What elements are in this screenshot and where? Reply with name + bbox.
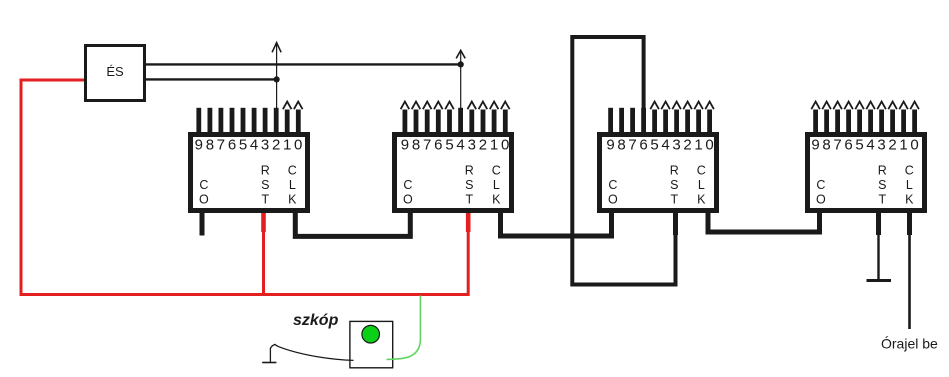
label U1.CO — [199, 178, 209, 207]
svg-text:K: K — [905, 193, 914, 207]
svg-text:2: 2 — [888, 137, 896, 154]
wire: vertical from U1 pin 2 up to node — [272, 43, 281, 109]
pin U1.1 — [283, 102, 292, 154]
svg-text:C: C — [403, 178, 412, 192]
label U3.CLK — [697, 164, 706, 207]
svg-text:4: 4 — [866, 137, 874, 154]
pin U2.8 — [412, 102, 421, 154]
svg-text:8: 8 — [822, 137, 830, 154]
svg-text:C: C — [288, 164, 297, 178]
svg-text:7: 7 — [833, 137, 841, 154]
pin U4.0 — [910, 102, 919, 154]
counter U3 box — [600, 135, 717, 211]
oscilloscope (szkóp) box — [350, 321, 393, 367]
scope indicator (green lamp) — [362, 325, 380, 343]
pin U4.1 — [899, 102, 908, 154]
svg-text:R: R — [670, 164, 679, 178]
wire: U1.CO stub — [200, 213, 205, 236]
svg-text:C: C — [697, 164, 706, 178]
AND gate U5 (ÉS) — [86, 46, 145, 101]
label U4.RST — [878, 164, 887, 207]
counter U4 box — [808, 135, 925, 211]
pin U3.5 — [650, 102, 659, 154]
svg-text:8: 8 — [412, 137, 420, 154]
wire: ÉS input B from U1 output 2 (lower horizontal) — [146, 78, 278, 80]
svg-text:O: O — [816, 193, 826, 207]
pin U1.4 — [250, 108, 258, 154]
label U3.CO — [608, 178, 618, 207]
svg-text:S: S — [878, 178, 886, 192]
pin U1.5 — [239, 108, 247, 154]
wire: U2.CO to U1.CLK cascade — [295, 210, 410, 236]
pin U3.3 — [672, 102, 681, 154]
pin U1.0 — [294, 102, 303, 154]
node B (junction dot U2.4 to ÉS) — [458, 61, 464, 67]
pin U1.9 — [195, 108, 203, 154]
svg-text:O: O — [608, 193, 618, 207]
svg-text:1: 1 — [490, 137, 498, 154]
svg-text:6: 6 — [434, 137, 442, 154]
pin U3.6 — [639, 108, 647, 154]
label U1.RST — [261, 164, 270, 207]
svg-text:0: 0 — [910, 137, 918, 154]
pin U4.8 — [822, 102, 831, 154]
pin U3.2 — [683, 102, 692, 154]
svg-text:C: C — [199, 178, 208, 192]
pin U3.1 — [694, 102, 703, 154]
pin U3.4 — [661, 102, 670, 154]
counter U1 box — [191, 135, 308, 211]
svg-text:1: 1 — [899, 137, 907, 154]
svg-text:3: 3 — [468, 137, 476, 154]
label U2.CO — [403, 178, 413, 207]
svg-text:L: L — [289, 178, 296, 192]
pin U2.9 — [401, 102, 410, 154]
pin U2.6 — [434, 102, 443, 154]
wire: vertical from U2 pin 4 up to node — [456, 50, 465, 109]
svg-text:O: O — [199, 193, 209, 207]
wire: U3.CO to U2.CLK cascade — [501, 210, 612, 236]
svg-text:Órajel be: Órajel be — [881, 336, 938, 352]
wire: red reset net from ÉS output to U1.RST and U2.RST — [21, 80, 471, 295]
pin U2.2 — [479, 102, 488, 154]
svg-text:R: R — [261, 164, 270, 178]
svg-text:8: 8 — [206, 137, 214, 154]
svg-text:K: K — [492, 193, 501, 207]
svg-text:T: T — [261, 193, 269, 207]
svg-text:4: 4 — [661, 137, 669, 154]
svg-text:6: 6 — [639, 137, 647, 154]
pin U4.9 — [811, 102, 820, 154]
svg-text:T: T — [878, 193, 886, 207]
label U1.CLK — [288, 164, 297, 207]
svg-text:7: 7 — [217, 137, 225, 154]
wire: U4.RST to ground — [876, 212, 881, 280]
svg-text:8: 8 — [617, 137, 625, 154]
svg-text:7: 7 — [628, 137, 636, 154]
svg-text:4: 4 — [456, 137, 464, 154]
wire: green probe lead from reset net to scope — [387, 296, 421, 360]
pin U2.7 — [423, 102, 432, 154]
pin U3.9 — [606, 108, 614, 154]
svg-text:3: 3 — [261, 137, 269, 154]
label: Órajel be (clock in) — [881, 336, 938, 352]
pin U3.0 — [705, 102, 714, 154]
svg-text:9: 9 — [195, 137, 203, 154]
svg-text:0: 0 — [501, 137, 509, 154]
label U4.CO — [816, 178, 826, 207]
pin U1.3 — [261, 108, 269, 154]
wire: clock input to U4.CLK — [907, 212, 912, 329]
svg-text:2: 2 — [683, 137, 691, 154]
label: szkóp — [293, 312, 339, 329]
pin U4.3 — [877, 102, 886, 154]
label U2.RST — [465, 164, 474, 207]
svg-text:C: C — [816, 178, 825, 192]
svg-text:1: 1 — [694, 137, 702, 154]
svg-text:2: 2 — [272, 137, 280, 154]
wire: scope ground lead (black squiggle) — [262, 344, 353, 362]
pin U4.7 — [833, 102, 842, 154]
svg-text:9: 9 — [401, 137, 409, 154]
svg-text:T: T — [670, 193, 678, 207]
svg-text:5: 5 — [650, 137, 658, 154]
svg-text:S: S — [670, 178, 678, 192]
svg-text:9: 9 — [811, 137, 819, 154]
wire: U3.RST stub — [673, 212, 678, 235]
pin U2.5 — [445, 102, 454, 154]
svg-text:3: 3 — [672, 137, 680, 154]
pin U2.1 — [490, 102, 499, 154]
svg-text:O: O — [403, 193, 413, 207]
svg-text:C: C — [492, 164, 501, 178]
pin U4.4 — [866, 102, 875, 154]
counter U2 box — [395, 135, 512, 211]
pin U4.2 — [888, 102, 897, 154]
pin U3.7 — [628, 108, 636, 154]
svg-text:1: 1 — [283, 137, 291, 154]
svg-text:0: 0 — [705, 137, 713, 154]
svg-text:3: 3 — [877, 137, 885, 154]
svg-text:L: L — [493, 178, 500, 192]
pin U1.7 — [217, 108, 225, 154]
ground (U4.RST) — [867, 279, 892, 282]
node A (junction dot U1.2 to ÉS) — [274, 76, 280, 82]
pin U3.8 — [617, 108, 625, 154]
pin U1.2 — [272, 108, 280, 154]
wire: U3 divide-by-6 feedback loop pin 6 to RST — [572, 37, 675, 285]
svg-text:R: R — [465, 164, 474, 178]
svg-text:6: 6 — [228, 137, 236, 154]
pin U1.8 — [206, 108, 214, 154]
wire: ÉS input A from U2 output 4 (upper horizontal) — [146, 63, 462, 65]
pin U1.6 — [228, 108, 236, 154]
svg-text:5: 5 — [445, 137, 453, 154]
svg-text:K: K — [288, 193, 297, 207]
svg-text:5: 5 — [855, 137, 863, 154]
label U2.CLK — [492, 164, 501, 207]
svg-text:T: T — [465, 193, 473, 207]
svg-text:7: 7 — [423, 137, 431, 154]
svg-text:4: 4 — [250, 137, 258, 154]
svg-text:C: C — [905, 164, 914, 178]
svg-text:6: 6 — [844, 137, 852, 154]
svg-text:L: L — [698, 178, 705, 192]
pin U2.0 — [501, 102, 510, 154]
svg-text:K: K — [697, 193, 706, 207]
label U3.RST — [670, 164, 679, 207]
svg-text:szkóp: szkóp — [293, 312, 339, 329]
svg-text:9: 9 — [606, 137, 614, 154]
pin U4.5 — [855, 102, 864, 154]
svg-text:5: 5 — [239, 137, 247, 154]
svg-text:2: 2 — [479, 137, 487, 154]
pin U2.3 — [468, 102, 477, 154]
svg-text:0: 0 — [294, 137, 302, 154]
pin U4.6 — [844, 102, 853, 154]
svg-text:L: L — [906, 178, 913, 192]
wire: U4.CO to U3.CLK cascade — [708, 210, 820, 232]
svg-text:ÉS: ÉS — [106, 64, 124, 79]
svg-text:S: S — [261, 178, 269, 192]
svg-text:S: S — [465, 178, 473, 192]
svg-text:C: C — [608, 178, 617, 192]
pin U2.4 — [456, 108, 464, 154]
svg-text:R: R — [878, 164, 887, 178]
label U4.CLK — [905, 164, 914, 207]
